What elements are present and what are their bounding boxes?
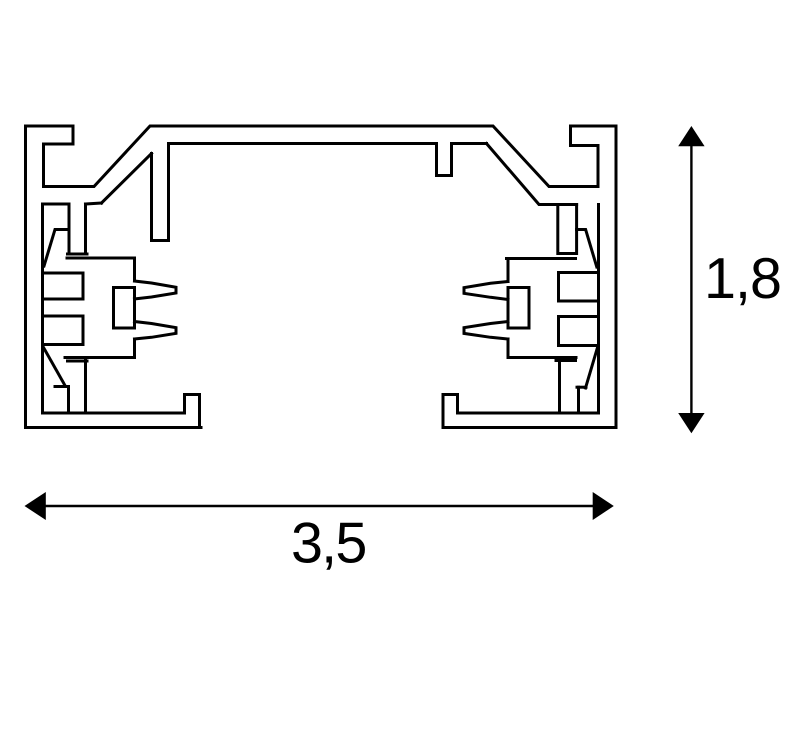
left block right wall middle — [133, 299, 136, 322]
right block left wall upper — [507, 259, 510, 282]
left middle rectangle — [114, 288, 135, 329]
right ceiling slot box — [558, 205, 577, 254]
right lower channel walls — [560, 358, 579, 414]
right conductor rectangle upper — [559, 273, 599, 302]
left channel bottom bar — [68, 253, 88, 256]
right lower spring diagonal — [586, 348, 598, 389]
left inner diagonal to slot — [102, 154, 152, 204]
left conductor rectangle upper — [43, 273, 84, 299]
left lower spring diagonal — [44, 348, 66, 386]
left conductor rectangle lower — [43, 316, 84, 345]
right conductor rectangle lower — [559, 317, 599, 346]
left ceiling slot — [152, 144, 169, 241]
svg-text:1,8: 1,8 — [704, 247, 781, 311]
right contact finger 2 — [464, 322, 508, 340]
right lower channel bar — [556, 359, 576, 362]
vertical dimension line 1,8 — [690, 145, 692, 414]
bottom-left foot and hook — [26, 204, 202, 428]
right lower jog — [577, 386, 586, 389]
right inner diagonal — [487, 144, 577, 205]
left lower jog — [55, 385, 69, 388]
track profile outer shell contour — [26, 126, 617, 428]
right block bottom — [508, 356, 576, 359]
right contact finger 1 — [464, 282, 508, 300]
left block right wall upper — [133, 258, 136, 281]
right block left wall lower — [507, 339, 510, 358]
left housing top — [43, 203, 102, 254]
right upper jog and spring diagonal — [577, 230, 597, 268]
left lower channel walls — [69, 358, 86, 414]
inner ceiling with notch — [169, 144, 487, 176]
horizontal dimension line 3,5 — [45, 505, 593, 507]
left contact finger 1 — [135, 281, 177, 299]
left lower channel bar — [68, 360, 88, 363]
left block top — [67, 257, 135, 260]
vertical dimension arrowhead top — [678, 126, 704, 146]
right block left wall middle — [507, 300, 510, 322]
left block right wall lower — [133, 339, 136, 358]
right middle rectangle — [508, 288, 529, 329]
horizontal dimension arrowhead left — [25, 492, 46, 520]
right block top — [507, 257, 576, 260]
vertical dimension arrowhead bottom — [678, 413, 704, 433]
svg-text:3,5: 3,5 — [291, 512, 366, 576]
left contact finger 2 — [135, 322, 177, 340]
horizontal dimension arrowhead right — [593, 492, 614, 520]
left upper jog and spring diagonal — [44, 230, 69, 267]
left block bottom — [65, 356, 135, 359]
